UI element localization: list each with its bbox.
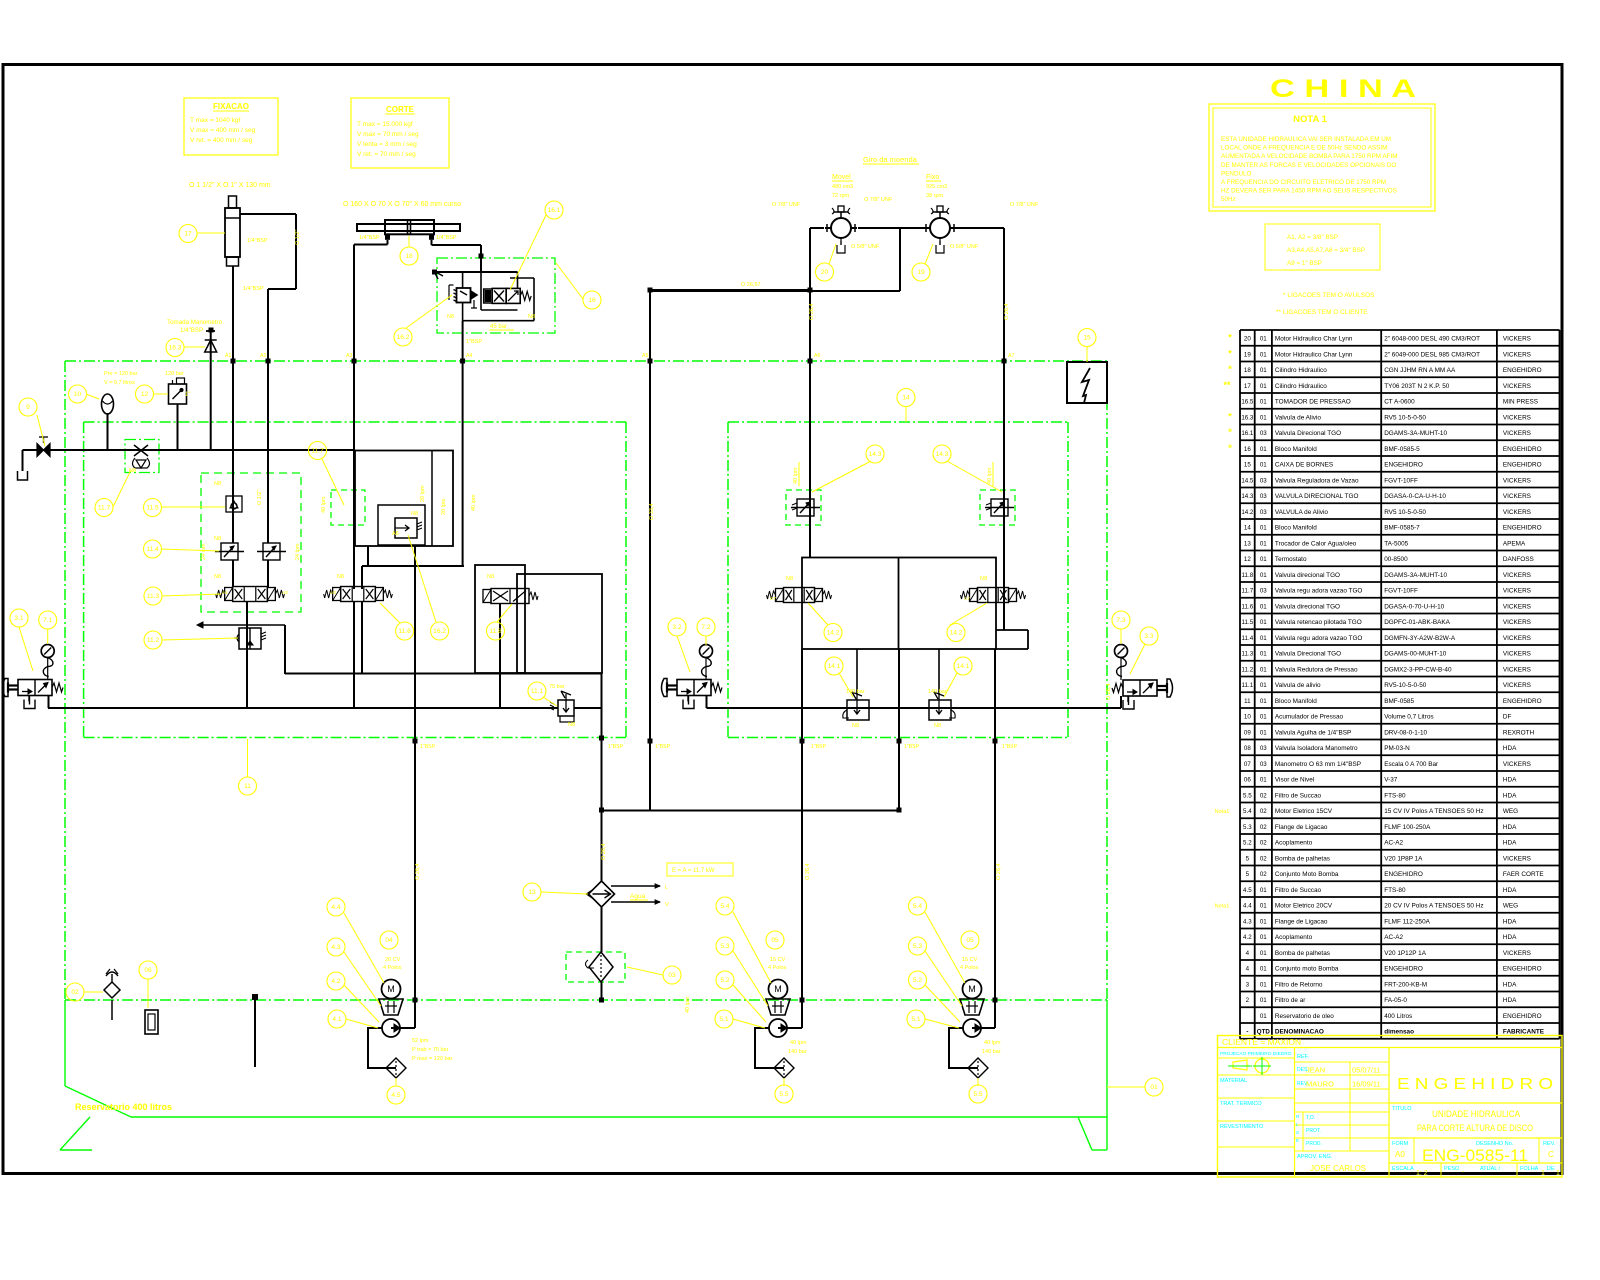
svg-text:VICKERS: VICKERS	[1503, 383, 1531, 390]
wire 11 group connections	[233, 498, 268, 587]
svg-text:VICKERS: VICKERS	[1503, 761, 1531, 768]
svg-text:ENGEHIDRO: ENGEHIDRO	[1503, 966, 1542, 973]
leader line	[147, 979, 149, 1008]
svg-text:A9 = 1" BSP: A9 = 1" BSP	[1287, 260, 1322, 267]
svg-text:4 Polos: 4 Polos	[768, 965, 787, 971]
svg-text:V ret. = 400 mm / seg: V ret. = 400 mm / seg	[190, 137, 253, 144]
svg-text:Acoplamento: Acoplamento	[1275, 840, 1313, 847]
svg-text:P max = 120 bar: P max = 120 bar	[412, 1056, 453, 1062]
svg-text:HDA: HDA	[1503, 934, 1517, 941]
balloon 5.1	[715, 1010, 733, 1028]
svg-text:400 Litros: 400 Litros	[1384, 1013, 1412, 1020]
solenoid valve 16.1	[484, 288, 532, 303]
pressure switch 12	[169, 378, 187, 404]
balloon 3.2	[668, 618, 686, 636]
svg-text:20: 20	[1244, 336, 1251, 343]
svg-text:01: 01	[1260, 997, 1267, 1004]
flow control 14.3 left symbol	[791, 499, 820, 516]
directional valve 11.6	[324, 587, 393, 602]
svg-text:Fixo: Fixo	[926, 174, 939, 181]
svg-text:AC-A2: AC-A2	[1384, 840, 1403, 847]
svg-text:75 bar: 75 bar	[549, 684, 565, 690]
svg-text:14.3: 14.3	[869, 451, 882, 458]
svg-text:01: 01	[1260, 666, 1267, 673]
svg-text:14: 14	[902, 395, 910, 402]
balloon 5.4	[716, 897, 734, 915]
balloon 5.5	[969, 1085, 987, 1103]
svg-text:V20 1P12P 1A: V20 1P12P 1A	[1384, 950, 1427, 957]
leader line	[37, 415, 45, 446]
balloon 14.3	[933, 445, 951, 463]
svg-text:V = 0,7 litros: V = 0,7 litros	[104, 380, 135, 386]
leader line	[543, 697, 557, 706]
balloon 15	[1078, 329, 1096, 347]
svg-text:FAER CORTE: FAER CORTE	[1503, 871, 1544, 878]
svg-text:FLMF 112-250A: FLMF 112-250A	[1384, 918, 1430, 925]
svg-text:MAURO: MAURO	[1306, 1080, 1334, 1089]
svg-text:5.1: 5.1	[911, 1016, 920, 1023]
balloon 5.3	[716, 937, 734, 955]
svg-text:DE MANTER AS FORCAS E VELOCIDA: DE MANTER AS FORCAS E VELOCIDADES OPCION…	[1221, 162, 1396, 169]
svg-text:03: 03	[668, 972, 676, 979]
balloon 11.3	[144, 587, 162, 605]
svg-text:BMF-0585: BMF-0585	[1384, 698, 1414, 705]
strainer 5.5b	[968, 1058, 988, 1078]
svg-text:O 26,4: O 26,4	[1106, 683, 1112, 700]
svg-text:Termostato: Termostato	[1275, 556, 1307, 563]
svg-text:Flange de Ligacao: Flange de Ligacao	[1275, 918, 1328, 925]
svg-text:A1: A1	[222, 590, 228, 596]
svg-text:1"BSP: 1"BSP	[904, 744, 920, 750]
leader line	[344, 952, 381, 1006]
svg-text:Agua: Agua	[630, 893, 646, 900]
wire drain to tank left	[22, 450, 24, 471]
svg-text:HDA: HDA	[1503, 777, 1517, 784]
svg-text:11.1: 11.1	[531, 688, 544, 695]
relief valve 14.1 left	[843, 649, 869, 720]
svg-text:5.2: 5.2	[913, 977, 922, 984]
svg-text:CAIXA DE BORNES: CAIXA DE BORNES	[1275, 462, 1333, 469]
svg-text:1"BSP: 1"BSP	[608, 744, 624, 750]
svg-text:7.1: 7.1	[43, 617, 52, 624]
svg-text:16.5: 16.5	[1241, 399, 1254, 406]
svg-text:Bomba de palhetas: Bomba de palhetas	[1275, 950, 1330, 957]
svg-text:Visor de Nivel: Visor de Nivel	[1275, 777, 1314, 784]
leader line	[86, 394, 99, 399]
svg-text:PARA CORTE ALTURA DE DISCO: PARA CORTE ALTURA DE DISCO	[1417, 1123, 1533, 1133]
svg-text:13: 13	[528, 889, 536, 896]
first angle projection symbol	[1228, 1057, 1271, 1075]
pipe size labels	[243, 230, 1112, 880]
svg-text:N8: N8	[337, 574, 344, 580]
svg-text:01: 01	[1260, 1013, 1267, 1020]
svg-text:* LIGACOES TEM O AVULSOS: * LIGACOES TEM O AVULSOS	[1283, 292, 1375, 299]
svg-text:02: 02	[1260, 840, 1267, 847]
svg-text:N8: N8	[411, 511, 418, 517]
group 5b electric motor	[963, 980, 982, 999]
svg-text:01: 01	[1260, 462, 1267, 469]
svg-text:DGMX2-3-PP-CW-B-40: DGMX2-3-PP-CW-B-40	[1384, 666, 1452, 673]
svg-text:20 lpm: 20 lpm	[441, 498, 447, 515]
wire pump riser left	[801, 649, 803, 1028]
svg-text:11.6: 11.6	[398, 628, 411, 635]
svg-text:01: 01	[1260, 603, 1267, 610]
svg-text:1/4"BSP: 1/4"BSP	[436, 235, 457, 241]
svg-text:N8: N8	[786, 576, 793, 582]
leader line	[905, 407, 907, 422]
relief valve 11.1	[550, 691, 574, 722]
svg-text:14.5: 14.5	[1241, 477, 1254, 484]
svg-text:V lenta = 3 mm / seg: V lenta = 3 mm / seg	[357, 141, 417, 148]
svg-text:VICKERS: VICKERS	[1503, 588, 1531, 595]
svg-text:08: 08	[1244, 745, 1251, 752]
giro da moenda labels	[832, 155, 947, 199]
svg-text:PROT.: PROT.	[1306, 1128, 1321, 1134]
svg-text:JEAN: JEAN	[1306, 1066, 1325, 1075]
green box flow control 11.7b	[331, 490, 365, 525]
svg-text:01: 01	[1260, 934, 1267, 941]
balloon 06	[139, 961, 157, 979]
node port labels	[225, 353, 1018, 750]
manifold block 16.2 subplate	[355, 451, 453, 547]
manual valve 3.2	[662, 679, 723, 709]
svg-text:DGAMS-00-MUHT-10: DGAMS-00-MUHT-10	[1384, 651, 1447, 658]
svg-text:16.3: 16.3	[169, 345, 182, 352]
svg-text:DGMFN-3Y-A2W-B2W-A: DGMFN-3Y-A2W-B2W-A	[1384, 635, 1456, 642]
svg-text:RV5-10-5-0-50: RV5-10-5-0-50	[1384, 682, 1427, 689]
svg-text:N8: N8	[214, 481, 221, 487]
svg-text:72 rpm: 72 rpm	[832, 193, 850, 199]
leader line	[944, 673, 957, 697]
balloon 17	[179, 225, 197, 243]
svg-text:CORTE: CORTE	[386, 105, 415, 114]
leader line	[783, 1078, 785, 1086]
pressure gauge 7.3	[1115, 645, 1128, 677]
svg-text:A7: A7	[1008, 353, 1014, 359]
svg-text:1: 1	[1541, 1170, 1545, 1177]
svg-text:ENGEHIDRO: ENGEHIDRO	[1384, 871, 1423, 878]
pump data labels	[383, 957, 1001, 1062]
svg-text:*: *	[1228, 443, 1232, 453]
svg-text:07: 07	[1244, 761, 1251, 768]
balloon 03	[663, 966, 681, 984]
svg-text:Giro da moenda: Giro da moenda	[863, 155, 918, 164]
svg-text:FIXACAO: FIXACAO	[213, 102, 249, 111]
svg-text:14.1: 14.1	[828, 663, 841, 670]
svg-text:Bloco Manifold: Bloco Manifold	[1275, 698, 1317, 705]
leader line	[705, 636, 707, 645]
svg-text:5.5: 5.5	[1243, 792, 1252, 799]
svg-text:VICKERS: VICKERS	[1503, 336, 1531, 343]
svg-text:14.3: 14.3	[1241, 493, 1254, 500]
svg-text:Bloco Manifold: Bloco Manifold	[1275, 446, 1317, 453]
svg-text:VICKERS: VICKERS	[1503, 950, 1531, 957]
svg-text:V20 1P8P 1A: V20 1P8P 1A	[1384, 855, 1423, 862]
svg-text:40 lpm: 40 lpm	[471, 494, 477, 511]
svg-text:03: 03	[1260, 745, 1267, 752]
svg-text:DF: DF	[1503, 714, 1512, 721]
throttle check valve 11.7	[133, 445, 150, 468]
svg-text:11.2: 11.2	[147, 637, 160, 644]
balloon leader 01	[1107, 1086, 1145, 1088]
leader line	[925, 912, 965, 983]
svg-text:19: 19	[1244, 351, 1251, 358]
wire block16 internals	[432, 259, 534, 361]
wire heat exchanger branch	[601, 674, 603, 1001]
wire main return line	[48, 707, 1121, 709]
svg-text:Bomba de palhetas: Bomba de palhetas	[1275, 855, 1330, 862]
svg-text:**: **	[1223, 380, 1231, 390]
svg-text:V max = 70 mm / seg: V max = 70 mm / seg	[357, 131, 419, 138]
svg-text:Manometro O 63 mm 1/4"BSP: Manometro O 63 mm 1/4"BSP	[1275, 761, 1361, 768]
svg-text:O 26,4: O 26,4	[415, 863, 421, 880]
svg-text:Flange de Ligacao: Flange de Ligacao	[1275, 824, 1328, 831]
leader line	[247, 739, 249, 777]
svg-text:01: 01	[1260, 682, 1267, 689]
svg-text:4.3: 4.3	[331, 944, 340, 951]
svg-text:14.2: 14.2	[827, 630, 840, 637]
svg-text:VICKERS: VICKERS	[1503, 619, 1531, 626]
svg-text:5.3: 5.3	[1243, 824, 1252, 831]
svg-text:N8: N8	[852, 723, 859, 729]
svg-text:VICKERS: VICKERS	[1503, 666, 1531, 673]
svg-text:11.7: 11.7	[98, 505, 111, 512]
leader line	[977, 1078, 979, 1086]
svg-text:3.1: 3.1	[14, 615, 23, 622]
svg-text:L: L	[665, 885, 668, 891]
tomada manometro label	[167, 319, 223, 334]
svg-text:ENGEHIDRO: ENGEHIDRO	[1503, 525, 1542, 532]
svg-text:ATUAL /: ATUAL /	[1480, 1166, 1501, 1172]
svg-text:02: 02	[1260, 824, 1267, 831]
svg-text:01: 01	[1260, 777, 1267, 784]
leader line	[541, 892, 588, 894]
leader line	[925, 985, 960, 1022]
svg-text:Valvula Isoladora Manometro: Valvula Isoladora Manometro	[1275, 745, 1358, 752]
svg-text:24 lpm: 24 lpm	[201, 543, 207, 560]
balloon 14.2	[947, 624, 965, 642]
leader line	[733, 1019, 765, 1028]
balloon 11.7	[95, 499, 113, 517]
leader line	[344, 985, 379, 1022]
balloon 7.3	[1112, 611, 1130, 629]
svg-text:14.2: 14.2	[950, 630, 963, 637]
svg-text:02: 02	[1260, 855, 1267, 862]
balloon 5.4	[909, 897, 927, 915]
svg-text:03: 03	[1260, 477, 1267, 484]
svg-text:O 5/8" UNF: O 5/8" UNF	[950, 244, 979, 250]
svg-text:01: 01	[1260, 729, 1267, 736]
balloon 3.3	[1140, 627, 1158, 645]
balloon 14	[897, 389, 915, 407]
svg-text:01: 01	[1260, 981, 1267, 988]
svg-text:15 CV IV Polos A TENSOES 50 H: 15 CV IV Polos A TENSOES 50 Hz	[1384, 808, 1483, 815]
svg-text:DGASA-0-70-U-H-10: DGASA-0-70-U-H-10	[1384, 603, 1444, 610]
balloon 14.3	[866, 445, 884, 463]
svg-text:O 33,4: O 33,4	[649, 503, 655, 520]
svg-text:Movel: Movel	[832, 174, 851, 181]
svg-text:5.4: 5.4	[720, 903, 729, 910]
svg-text:RV5 10-5-0-50: RV5 10-5-0-50	[1384, 509, 1426, 516]
svg-text:CT A-0600: CT A-0600	[1384, 399, 1415, 406]
svg-text:2" 6049-000 DESL 985 CM3/ROT: 2" 6049-000 DESL 985 CM3/ROT	[1384, 351, 1480, 358]
svg-text:5.4: 5.4	[1243, 808, 1252, 815]
svg-text:CLIENTE = MAXION: CLIENTE = MAXION	[1222, 1037, 1301, 1047]
svg-text:JOSE CARLOS: JOSE CARLOS	[1310, 1164, 1366, 1173]
svg-text:Filtro de Succao: Filtro de Succao	[1275, 792, 1322, 799]
svg-text:05: 05	[966, 937, 974, 944]
svg-text:01: 01	[1260, 351, 1267, 358]
hydraulic motor 19 Fixo	[924, 206, 956, 253]
svg-text:16.1: 16.1	[1241, 430, 1254, 437]
svg-text:DANFOSS: DANFOSS	[1503, 556, 1534, 563]
svg-text:16.3: 16.3	[1241, 414, 1254, 421]
leader line	[346, 1019, 378, 1028]
electric box 15	[1067, 362, 1107, 403]
svg-text:VICKERS: VICKERS	[1503, 493, 1531, 500]
svg-text:Filtro de Succao: Filtro de Succao	[1275, 887, 1322, 894]
svg-text:DGASA-0-CA-U-H-10: DGASA-0-CA-U-H-10	[1384, 493, 1446, 500]
leader line	[925, 951, 962, 1006]
svg-text:ESTA UNIDADE HIDRAULICA VAI SE: ESTA UNIDADE HIDRAULICA VAI SER INSTALAD…	[1221, 136, 1391, 143]
svg-text:** LIGACOES TEM O CLIENTE: ** LIGACOES TEM O CLIENTE	[1276, 309, 1368, 316]
svg-text:4.2: 4.2	[331, 978, 340, 985]
balloon 16.1	[545, 201, 563, 219]
pressure gauge 7.1	[41, 645, 54, 677]
svg-text:NOTA 1: NOTA 1	[1293, 114, 1327, 125]
svg-text:Valvula de Alivio: Valvula de Alivio	[1275, 414, 1322, 421]
svg-text:140 bar: 140 bar	[982, 1049, 1001, 1055]
svg-text:FTS-80: FTS-80	[1384, 887, 1406, 894]
svg-text:ENGEHIDRO: ENGEHIDRO	[1384, 966, 1423, 973]
svg-text:TRAT. TERMICO: TRAT. TERMICO	[1220, 1101, 1262, 1107]
wire cylinder 17 rod side	[240, 214, 296, 520]
svg-text:O 5/8" UNF: O 5/8" UNF	[851, 244, 880, 250]
balloon 4.3	[327, 938, 345, 956]
wire cylinder 13 right port	[432, 240, 482, 259]
svg-text:Pre = 120 bar: Pre = 120 bar	[104, 371, 138, 377]
leader line	[808, 603, 828, 625]
svg-text:3.2: 3.2	[672, 624, 681, 631]
svg-text:10: 10	[1244, 714, 1251, 721]
balloon 4.5	[387, 1086, 405, 1104]
svg-text:16.2: 16.2	[397, 334, 410, 341]
CORTE data box	[351, 98, 449, 168]
svg-text:Valvula direcional TGO: Valvula direcional TGO	[1275, 603, 1340, 610]
heat exchanger 13	[587, 881, 615, 907]
svg-text:10: 10	[74, 391, 82, 398]
svg-text:HDA: HDA	[1503, 887, 1517, 894]
svg-text:1"BSP: 1"BSP	[811, 744, 827, 750]
svg-text:4 Polos: 4 Polos	[960, 965, 979, 971]
svg-text:A2: A2	[260, 353, 266, 359]
svg-text:40 lpm: 40 lpm	[790, 1040, 807, 1046]
svg-text:01: 01	[1260, 966, 1267, 973]
svg-text:Nota1: Nota1	[1215, 809, 1230, 815]
manual valve 3.3	[1112, 679, 1173, 709]
svg-text:*: *	[1228, 411, 1232, 421]
svg-text:01: 01	[1260, 635, 1267, 642]
leader line	[47, 629, 49, 644]
svg-text:01: 01	[1260, 950, 1267, 957]
leader line	[812, 461, 871, 492]
svg-text:BMF-0585-5: BMF-0585-5	[1384, 446, 1420, 453]
balloon 04	[380, 931, 398, 949]
pilot check valve 11.5	[226, 496, 242, 512]
svg-text:1"BSP: 1"BSP	[1002, 744, 1018, 750]
balloon 11.7	[309, 442, 327, 460]
svg-text:5.2: 5.2	[1243, 840, 1252, 847]
svg-text:PM-03-N: PM-03-N	[1384, 745, 1410, 752]
svg-text:Valvula de alivio: Valvula de alivio	[1275, 682, 1321, 689]
leader line	[162, 594, 221, 596]
svg-text:14.1: 14.1	[957, 663, 970, 670]
balloon 19	[912, 263, 930, 281]
svg-text:Filtro de Retorno: Filtro de Retorno	[1275, 981, 1323, 988]
leader line	[829, 244, 836, 264]
svg-text:A1, A2 = 3/8" BSP: A1, A2 = 3/8" BSP	[1287, 234, 1338, 241]
svg-text:C H I N A: C H I N A	[1270, 75, 1416, 103]
svg-text:O 160 X O 70 X O 70" X 60 mm: O 160 X O 70 X O 70" X 60 mm curso	[343, 201, 461, 208]
svg-text:N8: N8	[487, 574, 494, 580]
svg-text:480 cm3: 480 cm3	[832, 184, 853, 190]
svg-text:ENGEHIDRO: ENGEHIDRO	[1503, 1013, 1542, 1020]
junction nodes	[209, 254, 1007, 1003]
svg-text:5.2: 5.2	[720, 977, 729, 984]
svg-text:Valvula Direcional TGO: Valvula Direcional TGO	[1275, 430, 1341, 437]
svg-text:1: 2: 1: 2	[1416, 1170, 1428, 1177]
svg-text:FORM: FORM	[1392, 1141, 1409, 1147]
svg-text:REF.: REF.	[1297, 1054, 1309, 1060]
svg-text:Acoplamento: Acoplamento	[1275, 934, 1313, 941]
svg-text:15 CV: 15 CV	[962, 957, 978, 963]
svg-text:Valvula direcional TGO: Valvula direcional TGO	[1275, 572, 1340, 579]
svg-text:FGVT-10FF: FGVT-10FF	[1384, 588, 1418, 595]
svg-text:A7: A7	[964, 596, 970, 602]
svg-text:O 7/8" UNF: O 7/8" UNF	[772, 202, 801, 208]
svg-text:Cilindro Hidraulico: Cilindro Hidraulico	[1275, 367, 1327, 374]
tank stub line A	[253, 995, 258, 1068]
svg-text:HDA: HDA	[1503, 824, 1517, 831]
svg-text:20: 20	[821, 269, 829, 276]
leader line	[408, 236, 410, 247]
leader line	[925, 244, 933, 264]
svg-text:HZ DEVERA SER PARA 1450 RPM AO: HZ DEVERA SER PARA 1450 RPM AO SEUS RESP…	[1221, 188, 1397, 195]
leader line	[113, 470, 131, 507]
leader line	[344, 913, 384, 983]
svg-text:4.1: 4.1	[332, 1016, 341, 1023]
svg-text:3: 3	[1246, 981, 1250, 988]
svg-text:HDA: HDA	[1503, 918, 1517, 925]
svg-text:O 1 1/2" X O 1" X 130 mm: O 1 1/2" X O 1" X 130 mm	[189, 182, 271, 189]
svg-text:FRT-200-KB-M: FRT-200-KB-M	[1384, 981, 1427, 988]
svg-text:03: 03	[1260, 588, 1267, 595]
svg-text:12: 12	[141, 391, 149, 398]
svg-text:Tomada Manometro: Tomada Manometro	[167, 319, 223, 326]
leader line	[395, 1078, 397, 1086]
svg-text:01: 01	[1260, 525, 1267, 532]
svg-text:09: 09	[1244, 729, 1251, 736]
svg-text:UNIDADE HIDRAULICA: UNIDADE HIDRAULICA	[1432, 1109, 1520, 1119]
directional valve 14.2 left	[767, 588, 832, 603]
motor port labels	[772, 197, 1039, 250]
svg-text:C: C	[1548, 1150, 1554, 1159]
svg-text:03: 03	[1260, 430, 1267, 437]
svg-text:5.5: 5.5	[779, 1091, 788, 1098]
manifold block rectangles mid	[362, 565, 602, 673]
svg-text:01: 01	[1260, 887, 1267, 894]
svg-text:00-8500: 00-8500	[1384, 556, 1408, 563]
